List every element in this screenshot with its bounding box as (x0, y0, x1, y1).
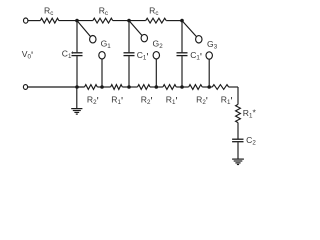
svg-text:V0': V0' (22, 49, 33, 62)
svg-text:C2: C2 (246, 135, 256, 147)
svg-text:R1': R1' (166, 95, 178, 108)
svg-text:Rc: Rc (149, 6, 158, 18)
svg-text:R1*: R1* (243, 108, 257, 120)
svg-text:Rc: Rc (44, 6, 53, 18)
svg-text:G3: G3 (207, 39, 218, 51)
svg-text:R2': R2' (141, 95, 153, 108)
svg-text:Rc: Rc (99, 6, 108, 18)
svg-text:G2: G2 (153, 39, 164, 51)
svg-text:R1': R1' (221, 95, 233, 108)
svg-text:R2': R2' (196, 95, 208, 108)
svg-text:C1': C1' (190, 50, 202, 63)
svg-text:G1: G1 (101, 39, 112, 51)
svg-text:R1': R1' (111, 95, 123, 108)
svg-text:C1': C1' (137, 50, 149, 63)
svg-text:C1': C1' (62, 49, 74, 62)
svg-text:R2': R2' (87, 95, 99, 108)
